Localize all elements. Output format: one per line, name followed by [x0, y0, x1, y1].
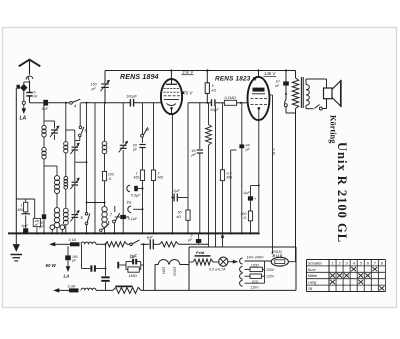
- svg-text:1: 1: [331, 260, 333, 265]
- svg-text:LA: LA: [20, 116, 27, 122]
- svg-text:pF: pF: [191, 153, 197, 157]
- svg-text:MΩ: MΩ: [18, 208, 24, 212]
- svg-text:Kurz: Kurz: [308, 267, 316, 272]
- svg-text:0,5µF: 0,5µF: [131, 194, 141, 198]
- svg-text:kΩ: kΩ: [212, 89, 217, 93]
- svg-text:6µF: 6µF: [22, 224, 29, 228]
- svg-text:0,1µF: 0,1µF: [128, 217, 138, 221]
- svg-text:150Ω: 150Ω: [251, 263, 260, 267]
- svg-text:0,5 ⌀ 0,7A: 0,5 ⌀ 0,7A: [209, 268, 226, 272]
- svg-text:pF: pF: [91, 87, 97, 91]
- svg-text:TA: TA: [308, 286, 313, 291]
- svg-text:1µF: 1µF: [130, 253, 138, 258]
- svg-text:Lang: Lang: [308, 280, 317, 285]
- svg-text:µF: µF: [35, 223, 39, 227]
- svg-text:78 V: 78 V: [272, 148, 276, 156]
- svg-text:kΩ: kΩ: [177, 215, 182, 219]
- svg-text:150 V: 150 V: [182, 70, 194, 75]
- svg-text:pF: pF: [132, 147, 138, 151]
- svg-text:MΩ: MΩ: [227, 176, 233, 180]
- svg-text:Ω: Ω: [244, 216, 247, 220]
- svg-text:MΩ: MΩ: [158, 176, 164, 180]
- svg-text:Schalter: Schalter: [308, 260, 323, 265]
- svg-text:pF: pF: [245, 147, 251, 151]
- svg-text:E U II: E U II: [273, 253, 284, 258]
- svg-text:10µF: 10µF: [210, 108, 219, 112]
- svg-text:146 V: 146 V: [264, 71, 276, 76]
- svg-text:TA: TA: [127, 200, 132, 205]
- svg-text:Unix R 2100 GL: Unix R 2100 GL: [335, 142, 349, 243]
- svg-text:0,1A: 0,1A: [69, 238, 77, 242]
- svg-text:110V: 110V: [251, 285, 260, 289]
- svg-text:1894: 1894: [162, 267, 166, 275]
- svg-text:75 V: 75 V: [184, 91, 194, 96]
- svg-text:5µF: 5µF: [42, 107, 49, 111]
- svg-text:Ω: Ω: [109, 177, 112, 181]
- svg-text:MΩ: MΩ: [134, 176, 140, 180]
- svg-text:1MΩ: 1MΩ: [129, 273, 137, 278]
- svg-text:Körting: Körting: [329, 115, 338, 144]
- svg-text:Mittel: Mittel: [308, 273, 317, 278]
- svg-text:0,3A: 0,3A: [68, 284, 76, 288]
- svg-text:140–240V: 140–240V: [247, 256, 264, 260]
- svg-text:RENS 1894: RENS 1894: [120, 74, 159, 81]
- svg-text:100µF: 100µF: [126, 95, 138, 99]
- svg-text:135V: 135V: [266, 268, 275, 272]
- svg-text:Feld: Feld: [196, 250, 205, 255]
- svg-text:125V: 125V: [266, 275, 275, 279]
- svg-text:0,1MΩ: 0,1MΩ: [225, 96, 236, 100]
- svg-text:LA: LA: [64, 274, 70, 279]
- svg-text:60 W: 60 W: [46, 263, 57, 268]
- svg-text:4µF: 4µF: [147, 236, 154, 240]
- svg-text:4µF: 4µF: [244, 191, 251, 195]
- svg-text:1823d: 1823d: [173, 267, 177, 276]
- svg-text:2µF: 2µF: [173, 189, 181, 193]
- svg-text:RENS 1823 d: RENS 1823 d: [215, 76, 258, 83]
